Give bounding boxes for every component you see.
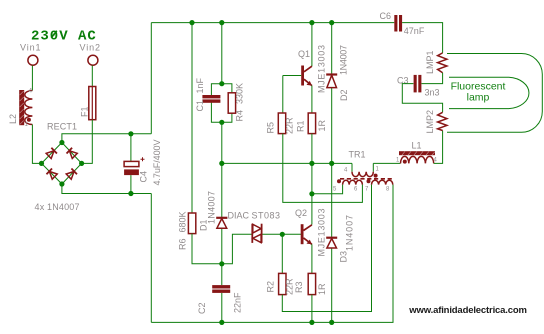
svg-text:1nF: 1nF	[195, 77, 205, 93]
junction bridge top	[59, 140, 64, 145]
wire Q1 base	[283, 75, 301, 77]
slashed zero mark	[51, 31, 57, 38]
junction bridge right	[79, 161, 84, 166]
svg-text:1N4007: 1N4007	[345, 215, 355, 251]
svg-text:1N4007: 1N4007	[339, 45, 349, 75]
svg-text:1R: 1R	[317, 119, 327, 131]
capacitor C2	[197, 264, 243, 323]
svg-text:Q2: Q2	[295, 208, 307, 218]
junction top bus x332	[329, 20, 334, 25]
TR1 winding 5-6	[343, 180, 363, 184]
wire mid bus	[222, 162, 352, 164]
resistor R3	[294, 273, 327, 295]
diode D2	[326, 23, 349, 164]
svg-text:C4: C4	[139, 171, 149, 183]
TR1 core dashed	[340, 178, 392, 180]
bridge diode top-right	[67, 148, 78, 159]
svg-text:L1: L1	[412, 141, 422, 151]
lamp filament LMP2	[425, 110, 447, 134]
svg-text:4.7uF/400V: 4.7uF/400V	[152, 140, 162, 186]
svg-text:22R: 22R	[285, 278, 295, 295]
svg-text:C1: C1	[195, 100, 205, 112]
wire R6 bottom	[192, 234, 222, 264]
svg-text:3n3: 3n3	[425, 88, 440, 98]
wire left rail down	[150, 194, 152, 323]
svg-text:1R: 1R	[317, 283, 327, 295]
svg-text:1N4007: 1N4007	[207, 191, 217, 224]
junction Q2 collector node	[309, 191, 314, 196]
svg-text:R6: R6	[178, 238, 188, 250]
resistor R5	[266, 113, 295, 134]
terminal Vin2	[88, 55, 98, 65]
lamp filament LMP1	[425, 50, 447, 74]
svg-text:4x 1N4007: 4x 1N4007	[35, 202, 80, 212]
svg-text:lamp: lamp	[467, 92, 490, 104]
junction top bus x312	[309, 20, 314, 25]
svg-text:22nF: 22nF	[233, 292, 243, 313]
junction bottom bus x332	[329, 320, 334, 325]
svg-text:R3: R3	[294, 281, 304, 293]
bridge diode top-left	[46, 148, 57, 159]
svg-text:D2: D2	[339, 89, 349, 101]
fluorescent lamp tube outline	[447, 54, 542, 133]
junction mid bus x332	[329, 161, 334, 166]
capacitor C6	[380, 11, 425, 36]
svg-text:C6: C6	[380, 11, 392, 21]
svg-text:DIAC: DIAC	[228, 211, 250, 221]
svg-text:LMP1: LMP1	[425, 50, 435, 74]
wire L1 to LMP2	[434, 131, 443, 164]
junction bridge bottom	[59, 181, 64, 186]
capacitor C4	[124, 134, 162, 194]
svg-text:TR1: TR1	[349, 150, 366, 160]
svg-text:MJE13003: MJE13003	[317, 45, 327, 93]
wire bridge plus to left rail	[62, 134, 151, 143]
transformer TR1	[333, 150, 393, 193]
wire DIAC node to R2	[281, 234, 283, 273]
resistor R2	[266, 273, 295, 295]
junction bridge left	[39, 161, 44, 166]
inductor L2	[8, 89, 33, 129]
wire Vin1 to L2	[31, 66, 33, 91]
resistor R6	[178, 211, 196, 250]
TR1 primary winding 4-1	[352, 163, 373, 171]
capacitor C1	[195, 77, 222, 122]
wire Vin2 to F1	[91, 66, 93, 87]
wire Q1 base to R5	[282, 76, 284, 114]
junction mid bus x312	[309, 161, 314, 166]
wire left rail top	[150, 23, 152, 134]
junction C1R4 top	[219, 81, 224, 86]
wire R5 bottom to TR1 pin6	[283, 134, 363, 203]
junction DIAC node	[280, 232, 285, 237]
resistor R1	[295, 113, 327, 134]
svg-text:Vin1: Vin1	[20, 43, 41, 53]
wire R3 bottom	[311, 295, 313, 323]
bridge diode bottom-right	[66, 168, 77, 179]
junction bottom bus x312	[309, 320, 314, 325]
svg-text:R1: R1	[295, 120, 305, 132]
svg-text:L2: L2	[8, 114, 18, 124]
wire Q2 emitter to R3	[311, 244, 313, 273]
svg-text:47nF: 47nF	[404, 26, 425, 36]
svg-text:330K: 330K	[235, 83, 245, 104]
wire DIAC branch	[222, 234, 302, 263]
wire F1 to bridge	[82, 120, 92, 164]
wire mid rail to Q2 collector	[311, 163, 313, 224]
svg-text:D3: D3	[339, 251, 349, 263]
svg-text:R4: R4	[235, 110, 245, 122]
svg-text:www.afinidadelectrica.com: www.afinidadelectrica.com	[408, 305, 527, 316]
svg-text:Vin2: Vin2	[80, 43, 101, 53]
svg-text:ST083: ST083	[252, 211, 281, 221]
svg-text:22R: 22R	[285, 117, 295, 134]
capacitor C3	[397, 75, 440, 98]
resistor R4	[222, 83, 245, 122]
wire L2 to bridge	[32, 125, 41, 164]
svg-text:680K: 680K	[178, 211, 188, 232]
inductor L1	[396, 141, 438, 164]
wire bottom bus	[151, 185, 393, 323]
junction bottom bus x222	[219, 320, 224, 325]
junction top bus x222	[219, 20, 224, 25]
svg-text:RECT1: RECT1	[47, 122, 77, 132]
wire bridge minus bus	[62, 184, 151, 194]
junction top bus x192	[189, 20, 194, 25]
svg-text:MJE13003: MJE13003	[317, 209, 327, 257]
wire C1R4 rail top	[221, 23, 223, 84]
diode D1	[199, 163, 228, 263]
junction mid bus x222	[219, 161, 224, 166]
junction D1 bottom	[219, 261, 224, 266]
wire LMP1 to C3	[422, 73, 443, 84]
svg-text:C2: C2	[197, 302, 207, 314]
fuse F1	[80, 87, 96, 120]
svg-text:R5: R5	[266, 122, 276, 134]
svg-text:Q1: Q1	[298, 49, 310, 59]
bridge diode bottom-left	[46, 168, 57, 179]
junction C1R4 bottom	[219, 120, 224, 125]
wire C3 to LMP2	[402, 84, 442, 113]
transistor Q2	[295, 208, 327, 257]
transistor Q1	[298, 23, 327, 93]
junction C4 bottom	[128, 191, 133, 196]
wire Q1 emitter to R1	[311, 86, 313, 113]
terminal Vin1	[28, 55, 38, 65]
wire R2 bottom to TR1 pin7	[282, 185, 371, 312]
wire R1 bottom to mid bus	[311, 134, 313, 164]
svg-text:F1: F1	[80, 106, 90, 117]
svg-text:R2: R2	[266, 281, 276, 293]
wire C1R4 to mid bus	[221, 122, 223, 163]
wire top bus	[151, 22, 394, 24]
bridge rectifier RECT1 wires	[42, 143, 82, 185]
wire R6 rail	[191, 23, 193, 213]
junction C4 top	[128, 131, 133, 136]
wire TR1 to L1	[373, 162, 400, 164]
TR1 winding 7-8	[372, 180, 393, 184]
wire to TR1 pin5	[312, 185, 343, 194]
svg-text:LMP2: LMP2	[425, 110, 435, 134]
diac DIAC ST083	[228, 211, 281, 243]
diode D3	[326, 163, 354, 322]
wire C6 to LMP1	[402, 23, 443, 53]
